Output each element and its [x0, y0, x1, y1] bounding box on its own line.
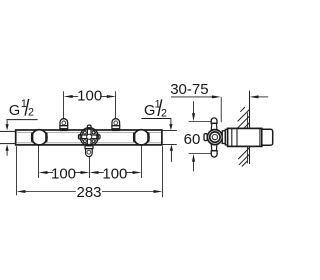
- wall hatching: [236, 107, 249, 167]
- dimension 283: extension lines: [17, 146, 163, 197]
- cross handle side: left nub: [204, 134, 207, 141]
- dimension G1/2 left: up arrow: [6, 145, 9, 156]
- dimension 100 top: extension lines: [64, 91, 116, 118]
- dimension G1/2 right: up arrow: [170, 145, 173, 162]
- valve outer ring: [80, 128, 98, 146]
- dimension 30-75: dim line + right arrow on wall: [171, 95, 268, 122]
- svg-text:283: 283: [76, 184, 101, 201]
- valve body end cap: [262, 129, 273, 145]
- cross handle side: hub inner: [210, 132, 220, 142]
- bottom port stub under valve: [85, 146, 93, 157]
- valve body main: [228, 128, 262, 146]
- dimension G1/2 right: leader underline + corner: [141, 119, 172, 131]
- wall line main: [249, 91, 251, 164]
- svg-text:100: 100: [77, 88, 102, 105]
- valve cross handle front: west cap: [78, 135, 81, 139]
- valve spokes: [87, 129, 91, 144]
- valve quadrant circles: [84, 131, 95, 142]
- wire: left supply pipe extension lines: [0, 131, 15, 143]
- svg-text:30-75: 30-75: [170, 81, 208, 98]
- dimension 100 top: dim line + arrows: [64, 95, 116, 98]
- wall line secondary: [246, 113, 248, 164]
- top port stub right: [112, 119, 120, 131]
- valve collar: [225, 129, 227, 145]
- valve center hub: [87, 134, 92, 139]
- dimension 60: down arrow: [192, 101, 195, 121]
- dimension 100 bottom-left: line + arrows: [39, 171, 90, 174]
- valve stem: [222, 131, 225, 144]
- cross handle side: hub outer: [207, 130, 222, 145]
- dimension 60: extension lines: [189, 122, 212, 154]
- dimension 60: up arrow: [192, 154, 195, 172]
- dimension 100 bottom-right: line + arrows: [90, 171, 142, 174]
- cross handle side: hub center: [212, 135, 217, 140]
- valve cross handle front: east cap: [97, 135, 100, 139]
- label G 1/2 left: [9, 98, 27, 119]
- dimension G1/2 left: down arrow: [6, 120, 9, 130]
- cross handle side: top neck: [211, 123, 217, 129]
- label G 1/2 right: [144, 99, 161, 119]
- svg-text:2: 2: [161, 107, 167, 119]
- svg-text:100: 100: [51, 165, 76, 182]
- dimension G1/2 left: leader underline: [6, 119, 37, 121]
- valve inner ring: [82, 129, 97, 144]
- cross handle side: bottom lobe cap: [211, 151, 217, 157]
- union nut right circle: [134, 130, 149, 145]
- top port stub left: [60, 119, 68, 131]
- svg-text:100: 100: [102, 165, 127, 182]
- wire: bar inner tube lines: [17, 132, 161, 142]
- cross handle side: bottom neck: [211, 145, 217, 151]
- wire: bar edge extension lines right: [162, 131, 176, 145]
- valve body ring lines: [232, 129, 260, 146]
- dimension 100 bottom-left / 100 bottom-right extension lines: [39, 146, 142, 178]
- valve cross handle front: north cap: [87, 125, 91, 128]
- union nut left circle: [32, 130, 47, 145]
- cross handle side: top lobe cap: [211, 118, 217, 123]
- svg-text:G: G: [9, 103, 20, 119]
- manifold bar body: [16, 130, 162, 145]
- svg-text:2: 2: [28, 107, 34, 119]
- svg-text:60: 60: [184, 131, 201, 148]
- dimension 283: line + arrows: [17, 190, 163, 193]
